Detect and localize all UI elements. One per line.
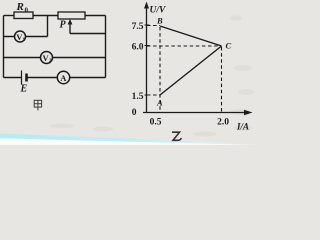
svg-text:I/A: I/A (236, 122, 249, 132)
svg-text:U/V: U/V (150, 6, 167, 16)
svg-text:0: 0 (132, 108, 137, 118)
svg-text:C: C (226, 41, 232, 51)
svg-text:1.5: 1.5 (132, 92, 144, 102)
svg-text:R: R (16, 1, 24, 13)
svg-text:2.0: 2.0 (217, 118, 229, 128)
svg-text:6.0: 6.0 (132, 43, 144, 53)
svg-text:A: A (60, 73, 67, 83)
svg-text:P: P (60, 20, 67, 31)
svg-text:A: A (156, 98, 163, 108)
svg-text:0: 0 (25, 7, 29, 15)
svg-text:B: B (156, 16, 163, 26)
svg-text:E: E (20, 84, 28, 95)
svg-text:0.5: 0.5 (150, 118, 162, 128)
svg-text:7.5: 7.5 (132, 22, 144, 32)
